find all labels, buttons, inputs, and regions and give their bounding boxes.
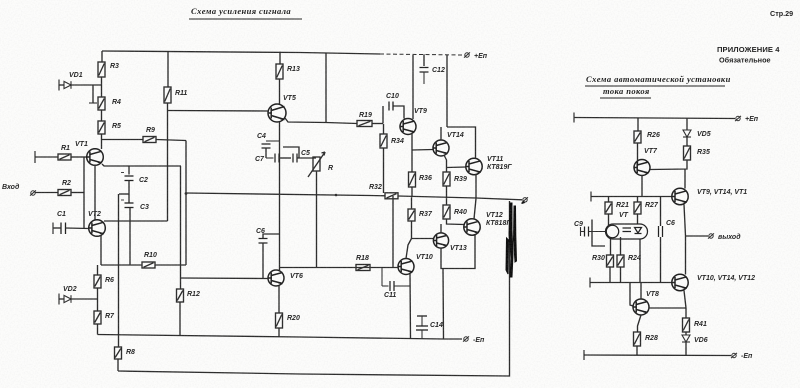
wire rail to VD5 — [686, 119, 688, 130]
wire R35 to VT7 emitter — [650, 160, 687, 170]
wire R10 to right bus — [155, 264, 186, 266]
wire R34 top — [383, 124, 385, 134]
wire VT11 emitter down — [475, 174, 477, 198]
wire long line to R37 — [411, 197, 413, 209]
wire C7 to C5 — [279, 157, 291, 159]
wire R2 to base bus — [71, 192, 84, 194]
wire VT1 base bus down — [83, 157, 85, 229]
wire R5 to VT1 collector node — [101, 134, 103, 149]
wire C10 to VT9 base — [393, 106, 404, 119]
resistor R4 — [98, 97, 105, 110]
wire bias tap down — [392, 196, 394, 268]
wire opto left leg — [610, 239, 612, 255]
node +Ep terminal — [464, 52, 470, 57]
resistor R11 — [164, 87, 171, 103]
wire bottom feedback rail — [118, 201, 510, 376]
wire VD1 cathode to R3/R4 node — [71, 84, 102, 86]
wire rail to R3 — [101, 51, 103, 62]
right title underline 1 — [585, 85, 725, 87]
node right -Ep terminal — [731, 353, 737, 358]
diode VD2 — [64, 295, 71, 303]
wire R12 to -Ep rail — [179, 302, 181, 336]
wire emitter node to VT11 base — [447, 166, 467, 169]
tap end bar — [89, 102, 97, 104]
wire opto emitter leg — [620, 237, 622, 255]
wire C6 top lead — [660, 197, 662, 227]
wire up to C10 — [382, 106, 384, 124]
resistor R12 — [177, 289, 184, 302]
wire collector node to R9 — [102, 139, 144, 141]
transistor VT6 — [268, 270, 284, 286]
wire R8 to bottom rail — [117, 359, 119, 371]
resistor R26 — [634, 131, 641, 143]
wire long output/feedback line — [186, 193, 385, 196]
wire VT5 out to junction — [285, 118, 326, 123]
wire node to R6 — [97, 265, 99, 275]
wire VT5 emitter bus — [279, 122, 281, 270]
wire C6 top to VT5 bus — [263, 234, 280, 239]
wire C6 bottom bracket — [262, 243, 264, 278]
transistor VT13 — [433, 233, 448, 248]
optocoupler U1 — [606, 224, 648, 239]
wire VD2 to R6/R7 node — [71, 298, 98, 300]
wire input to R2 — [36, 192, 59, 194]
wire C1 lead — [53, 227, 61, 229]
capacitor C3 — [125, 203, 134, 208]
transistor VT5 — [268, 104, 286, 122]
wire VD1 anode lead — [59, 84, 64, 86]
wire C6 bottom lead — [660, 237, 662, 283]
wire R11 down to VT2 emitter wire — [167, 103, 169, 221]
resistor R18 — [356, 265, 370, 271]
transistor VT12 — [464, 219, 480, 235]
title underline — [189, 18, 302, 20]
wire top +Ep rail — [102, 51, 380, 54]
capacitor C14 — [417, 315, 427, 317]
wire right -Ep rail — [584, 354, 731, 357]
wire VT14 collector up — [440, 127, 442, 140]
junction long-wire tap — [185, 192, 188, 195]
wire R3-R4 node — [101, 77, 103, 97]
capacitor C4 — [266, 140, 280, 142]
capacitor C11 — [381, 268, 383, 287]
diode VD5 — [683, 130, 691, 137]
right -Ep rail end bar — [583, 350, 585, 360]
node input terminal — [30, 190, 36, 195]
wire R39 to long line — [446, 186, 448, 198]
wire VT9 emitter down — [411, 134, 413, 150]
capacitor C5 — [293, 154, 297, 163]
wire rail to C12 — [423, 54, 425, 66]
wire VT2 collector down — [100, 236, 102, 266]
wire R6-R7 — [97, 288, 99, 311]
wire node to R41 — [685, 308, 687, 318]
resistor R32 — [385, 193, 398, 199]
wire VD1 tap branch — [92, 85, 94, 103]
resistor R35 — [684, 146, 691, 160]
wire R40 to VT12 base — [447, 219, 465, 225]
wire top rail dashed continuation — [380, 54, 463, 55]
wire VT8 emitter down — [638, 315, 642, 332]
transistor VT7 — [634, 160, 650, 176]
resistor R7 — [94, 311, 101, 324]
wire R24 to lower bus — [620, 267, 622, 282]
wire R7 to -Ep rail — [97, 324, 99, 335]
resistor R20 — [276, 313, 283, 328]
transistor VT1 — [87, 149, 104, 166]
node -Ep terminal — [463, 336, 469, 341]
resistor R13 — [276, 64, 283, 79]
capacitor C12 — [420, 68, 429, 73]
transistor VT14 — [433, 140, 449, 156]
wire VT1 emitter bus down — [180, 166, 182, 289]
transistor VT10 group — [672, 274, 688, 290]
wire R13 to VT5 — [279, 79, 281, 104]
resistor R5 — [98, 121, 105, 134]
wire R27 to opto — [637, 214, 639, 224]
wire VT7 collector down — [641, 176, 643, 197]
wire VT8 collector up — [640, 283, 642, 300]
wire R37 to VT13 base — [412, 221, 434, 239]
wire -Ep rail — [98, 335, 463, 340]
wire feedback tap jog — [119, 193, 129, 195]
wire VD6 to rail — [685, 342, 687, 355]
resistor R41 — [683, 318, 690, 332]
resistor R36 — [409, 172, 416, 187]
capacitor C10 — [389, 102, 393, 111]
resistor R24 — [617, 255, 624, 267]
resistor R21 — [605, 202, 612, 214]
wire long line right part — [398, 196, 522, 200]
resistor R28 — [634, 332, 641, 346]
transistor VT11 — [466, 158, 482, 174]
wire VT6 collector wire right — [280, 267, 399, 269]
wire rail drop x=447 — [446, 55, 448, 127]
diode VD1 — [64, 81, 71, 89]
lower bus end bar — [589, 278, 591, 288]
resistor R19 — [357, 121, 372, 127]
wire mid node down — [442, 269, 445, 340]
wire C4 down to C7 — [265, 148, 267, 158]
wire C9 bracket — [592, 220, 605, 247]
right +Ep rail end bar — [573, 113, 575, 123]
wire C5 to R node — [297, 157, 316, 159]
scan artifact dark streak — [506, 203, 517, 277]
wire VT10 emitter down — [409, 274, 412, 339]
wire VT6 base wire — [181, 277, 269, 280]
wire VT12 collector up — [474, 199, 476, 220]
resistor R3 — [98, 62, 105, 77]
capacitor C6 — [259, 239, 268, 244]
resistor R9 — [143, 137, 156, 143]
transistor VT8 — [633, 299, 649, 315]
resistor R39 — [443, 172, 450, 186]
wire VT1 emitter to right — [102, 164, 181, 166]
wire R41 to VD6 — [685, 332, 687, 335]
wire output stub — [686, 235, 709, 237]
node output terminal — [522, 197, 528, 202]
variable resistor R — [308, 152, 325, 177]
wire lower base bus — [590, 282, 672, 284]
wire VT9 base bus — [591, 196, 672, 198]
wire VT9g emitter down — [684, 205, 686, 237]
wire opto LED leg down — [639, 239, 641, 282]
wire VT14 emitter to R39 — [444, 155, 447, 172]
wire VT13 emitter loop — [441, 235, 475, 269]
wire VT7 emitter node down to VT9 — [684, 169, 686, 189]
wire R4-R5 — [101, 110, 103, 121]
wire R21 to opto — [608, 214, 610, 225]
C1 left end bar — [52, 223, 54, 235]
wire R19 right — [372, 123, 383, 125]
wire VT1 emitter down to VT2 — [94, 165, 96, 219]
wire feedback divider bus — [118, 194, 120, 347]
wire R26 to VT7 base — [637, 143, 639, 164]
R1 input end bar — [34, 151, 36, 163]
wire VD2 anode lead — [59, 298, 64, 300]
wire R27 top stub — [637, 197, 639, 203]
wire VT8 to R41 node — [649, 307, 686, 309]
resistor R8 — [115, 347, 122, 359]
wire VT2 collector node to R10 — [101, 264, 142, 266]
wire rail drop x=326 — [325, 53, 327, 123]
wire to VT14 base — [412, 149, 433, 152]
wire C3 down to R10 wire — [129, 208, 131, 266]
resistor R10 — [142, 262, 155, 268]
wire R20 to rail — [278, 328, 280, 337]
wire emitter wire to C2 — [128, 166, 130, 175]
wire R28 to rail — [636, 346, 638, 355]
wire long line to R40 — [446, 198, 448, 205]
wire R36 to long line — [411, 187, 413, 197]
wire VT10g emitter down — [684, 291, 686, 309]
transistor VT2 — [89, 220, 106, 237]
resistor R1 — [58, 154, 71, 160]
base wire end bar — [590, 192, 592, 202]
wire VT6 emitter — [278, 286, 280, 313]
wire rail to R13 — [279, 52, 281, 64]
wire C2 to C3 — [128, 181, 130, 204]
node output right terminal — [708, 233, 714, 238]
wire R21 top stub — [608, 197, 610, 203]
wire VD5 to R35 — [686, 137, 688, 146]
wire VT10 collector up — [406, 239, 412, 259]
wire bracket over caps — [283, 147, 299, 158]
wire junction to R19 — [326, 123, 357, 124]
VD2 anode end bar — [58, 294, 60, 305]
resistor R6 — [94, 275, 101, 288]
wire R30 to lower bus — [609, 267, 611, 282]
wire R34 bottom to long wire — [383, 148, 385, 193]
wire output node to VT10g — [685, 236, 687, 275]
wire VT8 base link — [630, 283, 633, 307]
node right +Ep terminal — [735, 116, 741, 121]
VD1 anode end bar — [58, 80, 60, 91]
wire right vertical bus — [185, 141, 187, 266]
wire R1 left lead — [35, 156, 58, 158]
capacitor C2 — [125, 176, 134, 181]
wire VT9 node down to R36 — [411, 150, 413, 172]
junction at long wire crossing — [335, 194, 338, 197]
wire R down to VT6 collector wire — [316, 171, 318, 268]
right title underline 2 — [600, 97, 651, 99]
resistor R37 — [408, 209, 415, 221]
wire R9 to right vertical — [156, 140, 186, 141]
resistor R27 — [634, 202, 641, 214]
transistor VT9 — [400, 119, 416, 135]
wire R1 to VT1 base — [71, 156, 87, 158]
resistor R34 — [380, 134, 387, 148]
wire VT2 upper-right to R11 line — [104, 220, 168, 222]
wire rail to R26 — [637, 118, 639, 131]
diode VD6 — [682, 335, 690, 342]
wire right +Ep rail — [574, 118, 735, 119]
wire top link to VT11 — [447, 127, 476, 159]
wire C1 to VT2 base — [66, 227, 90, 230]
wire VT13 collector up — [440, 224, 442, 233]
transistor VT9 group — [672, 188, 688, 204]
resistor R2 — [58, 190, 71, 196]
artifact small speck — [521, 201, 525, 204]
capacitor C7 — [266, 157, 274, 159]
wire rail drop to VT9 — [412, 55, 414, 119]
wire R11 node to VT5 base — [168, 110, 269, 113]
wire rail to R11 — [167, 52, 169, 87]
transistor VT10 — [398, 259, 414, 275]
resistor R40 — [443, 205, 450, 219]
resistor R30 — [607, 255, 614, 267]
